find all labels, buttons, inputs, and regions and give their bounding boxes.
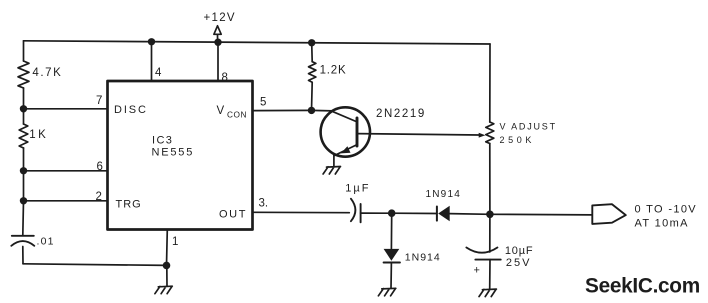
wire: node to transistor collector: [312, 109, 333, 112]
svg-text:1N914: 1N914: [426, 189, 461, 200]
diode D2 1N914 cathode bar: [384, 262, 400, 264]
junction: output node: [486, 211, 494, 219]
svg-text:CON: CON: [227, 109, 247, 119]
svg-text:1.2K: 1.2K: [320, 65, 347, 77]
wire: pin 4 stub: [151, 42, 153, 81]
transistor Q1 collector lead: [332, 111, 357, 122]
junction: node pin6/left rail: [20, 167, 27, 174]
transistor Q1 2N2219 circle: [321, 107, 370, 156]
svg-text:5: 5: [260, 97, 266, 109]
svg-text:6: 6: [97, 161, 103, 173]
svg-text:1N914: 1N914: [405, 252, 441, 264]
wire: bottom return wire: [23, 264, 167, 266]
diode D2 1N914 triangle: [384, 249, 400, 261]
svg-text:2: 2: [96, 191, 102, 203]
resistor 1K: [19, 124, 28, 148]
svg-text:NE555: NE555: [152, 147, 195, 159]
wire: left rail top segment: [23, 41, 25, 61]
junction: node pin7/left rail: [20, 105, 27, 112]
wire: node down to diode D2: [390, 213, 392, 248]
svg-text:25V: 25V: [506, 257, 532, 269]
wire: pin 8 stub: [217, 42, 219, 81]
svg-text:AT 10mA: AT 10mA: [635, 218, 689, 230]
svg-text:DISC: DISC: [114, 104, 148, 116]
capacitor 1uF curved plate: [351, 199, 356, 222]
wire: pin 7 DISC: [24, 108, 108, 110]
ground (capacitor 10uF): [479, 289, 496, 297]
wire: left rail pin7 to 1K: [23, 109, 25, 124]
svg-text:V: V: [217, 105, 225, 117]
diode D1 1N914 cathode bar: [436, 207, 438, 221]
wire: left rail pin6 to pin2 node: [23, 171, 25, 201]
resistor 1.2K: [309, 62, 316, 83]
op IC3 NE555 timer box: [108, 81, 253, 230]
wire: diode D1 to out node: [450, 213, 490, 216]
supply +12V arrow: [214, 26, 221, 35]
ground (pin 1): [155, 286, 172, 294]
wire: node to diode D1: [392, 212, 437, 214]
wire: pin 3 OUT to capacitor 1uF: [253, 211, 350, 213]
wire: left rail pin2 down to capacitor .01: [22, 201, 25, 236]
svg-text:IC3: IC3: [152, 135, 173, 147]
transistor Q1 base bar: [356, 118, 359, 146]
wire: capacitor .01 to bottom wire: [22, 247, 24, 264]
diode D1 1N914 triangle: [438, 206, 450, 222]
junction: VCON/1.2K/collector node: [308, 107, 315, 114]
junction: pin1/bottom wire: [163, 262, 171, 270]
wire: 1.2K top stub: [311, 43, 314, 62]
svg-text:10µF: 10µF: [505, 245, 534, 257]
capacitor 10uF flat plate: [475, 259, 500, 261]
svg-text:1: 1: [172, 236, 178, 248]
wire: pin 6: [24, 170, 108, 172]
wire: output node to connector: [490, 213, 593, 216]
svg-text:+12V: +12V: [204, 12, 236, 24]
wire: +12V stub to rail: [217, 35, 219, 43]
svg-text:.01: .01: [37, 236, 55, 248]
wire: left rail 1K to pin6 node: [23, 148, 25, 171]
wire: pin 2 TRG: [24, 200, 108, 202]
svg-text:0 TO -10V: 0 TO -10V: [635, 204, 698, 216]
junction: pin4 column on rail: [148, 38, 155, 45]
output connector: [592, 204, 626, 224]
svg-text:7: 7: [96, 95, 102, 107]
wire: top rail corner down to potentiometer: [489, 44, 491, 122]
svg-text:3.: 3.: [259, 198, 269, 210]
svg-text:SeekIC.com: SeekIC.com: [585, 275, 700, 298]
ground (diode D2): [378, 288, 395, 296]
wire: +12V top rail: [24, 41, 491, 44]
svg-text:1K: 1K: [29, 129, 48, 141]
svg-text:1µF: 1µF: [345, 183, 370, 195]
svg-text:8: 8: [222, 72, 228, 84]
svg-text:+: +: [474, 265, 480, 277]
capacitor 1uF flat plate: [360, 204, 362, 222]
svg-text:V ADJUST: V ADJUST: [500, 122, 557, 132]
wire: bottom node to ground: [166, 265, 168, 286]
wire: potentiometer bottom to out node: [489, 144, 491, 215]
wire: pin 1 stub to bottom wire: [166, 230, 169, 266]
wire: diode D2 to ground: [390, 263, 392, 289]
wire: base to potentiometer wiper: [357, 134, 479, 135]
wire: output node down to capacitor 10uF: [489, 214, 491, 252]
svg-text:4.7K: 4.7K: [32, 67, 62, 79]
svg-text:250K: 250K: [500, 135, 535, 145]
svg-text:OUT: OUT: [219, 209, 247, 221]
capacitor 10uF curved plate: [466, 248, 497, 253]
potentiometer wiper arrow: [479, 133, 486, 138]
junction: node pin2/left rail: [20, 197, 27, 204]
wire: 1.2K bottom to node: [311, 82, 314, 110]
svg-text:4: 4: [155, 67, 162, 79]
wire: 1uF to diode node: [361, 212, 392, 214]
svg-text:2N2219: 2N2219: [376, 108, 426, 120]
wire: pin 5 VCON to node: [253, 109, 312, 111]
junction: pin8/+12V column on rail: [214, 39, 221, 46]
svg-text:TRG: TRG: [116, 199, 142, 211]
potentiometer V ADJUST 250K zigzag: [486, 122, 494, 144]
ground (transistor emitter): [323, 167, 340, 175]
wire: left rail 4.7K to pin7 node: [23, 88, 25, 109]
transistor Q1 emitter arrow: [341, 146, 351, 153]
capacitor .01: [11, 236, 34, 246]
junction: 1uF/diodes node: [388, 209, 396, 217]
transistor Q1 emitter lead: [334, 145, 357, 156]
resistor 4.7K: [18, 61, 29, 88]
wire: emitter to ground: [333, 155, 335, 167]
junction: 1.2K top on rail: [308, 39, 315, 46]
wire: capacitor 10uF to ground: [489, 260, 491, 289]
